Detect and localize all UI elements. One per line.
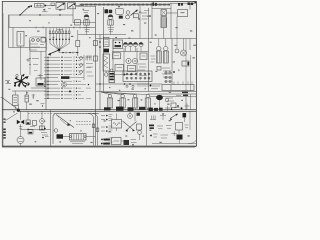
fuse list: [44, 56, 91, 99]
wire: [20, 124, 22, 129]
lamp b: [37, 39, 40, 42]
row3 dashes: [157, 126, 172, 129]
resistor column R6: [103, 54, 110, 71]
harness bus (ticked): [76, 3, 170, 6]
vertical wire: [112, 39, 114, 77]
tag marks: [165, 104, 190, 112]
fan motor symbol: [17, 120, 24, 124]
fuse box s: [157, 67, 161, 71]
wire: [76, 4, 85, 7]
heater resistor pack: [70, 134, 87, 141]
instrument pair: [126, 58, 138, 63]
dark cube: [124, 140, 130, 145]
vertical wire: [185, 39, 187, 92]
wire: [20, 46, 22, 48]
switch box r: [182, 61, 189, 66]
row3 marks r: [185, 125, 189, 128]
switch box: [41, 38, 46, 42]
junction blob: [17, 104, 20, 112]
sensor box: [76, 30, 80, 56]
divider wire a: [96, 91, 196, 93]
dash marks: [29, 58, 39, 71]
marks: [19, 127, 23, 129]
sensor S1: [118, 5, 119, 8]
cluster enclosure: [30, 37, 47, 52]
wire riser: [72, 6, 74, 23]
wire drop: [189, 3, 191, 9]
row4 marks: [150, 132, 177, 139]
wire: [152, 7, 171, 9]
node dot B: [44, 5, 46, 7]
row2 comb: [150, 116, 156, 120]
wire branch: [73, 22, 96, 24]
wire drop: [12, 28, 14, 48]
inline fuse a: [92, 124, 95, 128]
bus tags dark: [104, 107, 146, 111]
relay box bottom: [112, 138, 124, 145]
wire with lugs: [59, 50, 79, 54]
fuse box c: [137, 124, 142, 130]
switch cube b: [33, 121, 37, 126]
marks: [131, 140, 137, 146]
section divider upper: [2, 109, 196, 111]
contact dashes: [138, 64, 147, 70]
glyph marks: [41, 133, 49, 139]
dark glyph rows: [101, 139, 110, 145]
row2 tee: [160, 113, 166, 120]
wire: [167, 12, 178, 14]
vertical wire: [148, 8, 150, 92]
dark contact block: [104, 49, 110, 53]
ignition unit U2: [108, 15, 113, 26]
battery B1: [13, 91, 19, 110]
small lamp: [27, 59, 29, 61]
vertical wire: [136, 48, 138, 76]
wire top rail: [96, 38, 196, 40]
lamp: [104, 71, 108, 76]
list items: [101, 115, 113, 145]
vertical wire: [190, 55, 192, 92]
bus wire: [21, 129, 51, 130]
marks under U1: [84, 28, 91, 32]
inline fuse b: [96, 128, 99, 132]
vertical section wire: [50, 110, 52, 146]
section divider lower: [18, 110, 196, 112]
lamp a: [32, 39, 35, 42]
tiny reference labels: [9, 9, 196, 143]
marks: [28, 127, 35, 135]
relay box K4: [128, 66, 136, 72]
hatch shadow: [70, 142, 85, 144]
branch diagonal: [60, 119, 67, 125]
lead wire: [63, 136, 96, 138]
junction dots: [114, 74, 147, 76]
label block dark: [105, 9, 113, 13]
header text right: [188, 1, 197, 5]
marks: [150, 85, 161, 89]
vertical wire: [123, 48, 125, 76]
terminal comb: [49, 28, 71, 44]
bottom rail: [152, 140, 196, 144]
header text left: [153, 2, 157, 5]
wire cross rail: [78, 34, 126, 36]
relay box K1: [113, 40, 123, 49]
vertical wire: [185, 94, 187, 110]
dash rows: [76, 122, 91, 125]
main vertical bus 3: [99, 35, 101, 110]
wire drop: [8, 15, 10, 48]
loop wire a: [88, 113, 94, 145]
vertical wire: [135, 111, 147, 145]
marks right: [166, 96, 181, 108]
switch box: [113, 53, 121, 59]
winding box: [112, 113, 122, 131]
vertical section line: [45, 28, 47, 110]
wire: [12, 90, 46, 92]
diagonal feed wire: [1, 98, 20, 111]
wire drop: [29, 40, 31, 75]
horn a body: [156, 51, 161, 63]
crossed cables: [123, 121, 137, 132]
enclosure outline: [53, 113, 99, 144]
wire rail: [96, 83, 162, 87]
wire: [150, 96, 196, 98]
regulator box: [17, 32, 24, 47]
wire: [112, 51, 149, 53]
bus rail upper: [9, 14, 73, 15]
divider wire b: [148, 93, 196, 95]
contact dashes: [138, 11, 151, 20]
relay box K3: [115, 65, 124, 72]
horn relay cap b: [164, 39, 168, 51]
vertical wire: [190, 94, 192, 110]
resistor R5 (hatched): [104, 38, 110, 47]
dashed wire: [28, 112, 97, 114]
pump cluster: [53, 129, 63, 139]
switch cube: [26, 111, 30, 124]
lamp c: [138, 131, 142, 140]
vertical wire: [176, 17, 178, 39]
junction box (wide): [162, 82, 194, 91]
marks under U2: [108, 28, 115, 32]
dark actuator: [177, 135, 183, 144]
dark tag: [137, 113, 140, 116]
dark dashes: [182, 92, 188, 96]
relay box K5: [36, 74, 45, 86]
relay box K2: [140, 53, 147, 60]
contact dashes: [151, 56, 156, 62]
aux column: [80, 55, 84, 80]
motor M1: [181, 39, 187, 57]
tap box b: [93, 56, 97, 61]
wire: [20, 48, 22, 76]
fusible link F0: [35, 4, 45, 7]
fuse feed wire: [47, 57, 48, 99]
wire drop: [20, 111, 22, 120]
connector marks left: [5, 81, 11, 84]
tick comb: [138, 83, 148, 87]
contact dashes: [30, 44, 44, 50]
wire drop: [8, 15, 10, 27]
ballast coil L1: [161, 17, 167, 28]
small box: [40, 126, 46, 130]
breaker box: [176, 123, 183, 135]
diode box D1: [56, 3, 65, 10]
pickup box: [75, 20, 81, 25]
ignition coil row: [101, 92, 150, 110]
inline switch: [48, 3, 54, 9]
diagonal wire: [6, 113, 18, 121]
horn b body: [163, 51, 168, 63]
loop wire b: [93, 113, 98, 145]
lamp L2: [17, 129, 24, 147]
vertical wire: [189, 111, 191, 130]
legend box: [178, 10, 188, 17]
tick: [41, 104, 45, 107]
resistor block R10: [161, 10, 167, 16]
node dot A: [30, 5, 32, 7]
vertical wire: [189, 39, 191, 51]
dark condenser: [156, 95, 163, 110]
row2 dark: [183, 113, 187, 122]
ignition unit U1: [84, 15, 89, 26]
arrow to pump: [48, 50, 59, 56]
wire: [87, 25, 111, 34]
sender circle: [128, 111, 133, 118]
wire drop: [151, 3, 153, 39]
wire drop: [170, 3, 172, 38]
dash rows: [162, 68, 175, 77]
diode box D2: [68, 3, 76, 9]
wire: [163, 28, 165, 39]
vertical wire: [171, 39, 173, 85]
wire: [46, 5, 56, 7]
main vertical bus 1: [95, 6, 97, 146]
header text mid: [178, 3, 183, 6]
terminal marks: [42, 9, 48, 12]
horn relay cap a: [157, 39, 161, 51]
margin note text: [3, 119, 6, 139]
gauge cluster: [123, 42, 143, 51]
diagonal cable: [56, 115, 74, 128]
fuse F20: [25, 91, 29, 110]
vertical wire: [139, 5, 141, 39]
vertical wire: [40, 51, 42, 80]
small lamp r: [165, 98, 169, 102]
bus rail: [9, 47, 47, 49]
dark connector stack: [109, 69, 115, 83]
wire fan: [50, 44, 69, 52]
multi-connector junction: [14, 74, 30, 88]
wire: [31, 87, 46, 89]
page border frame: [2, 1, 197, 148]
tap box a: [93, 41, 97, 46]
switch cluster: [116, 8, 139, 19]
wire top right: [170, 2, 196, 4]
ground tap: [32, 94, 36, 99]
bus rail mid: [9, 27, 96, 29]
wire arrow to junction: [20, 6, 30, 15]
dark word row: [149, 108, 163, 111]
gauge circle: [40, 111, 45, 129]
connector grid: [165, 70, 171, 83]
row2 arrow: [170, 114, 178, 121]
distributor cap text: [83, 11, 89, 13]
terminal board: [123, 71, 152, 82]
main vertical bus 2: [103, 7, 105, 92]
row3 dark marks: [149, 125, 154, 130]
junction ticks: [36, 26, 80, 28]
idle solenoid: [175, 39, 179, 54]
aux comb: [86, 56, 94, 76]
